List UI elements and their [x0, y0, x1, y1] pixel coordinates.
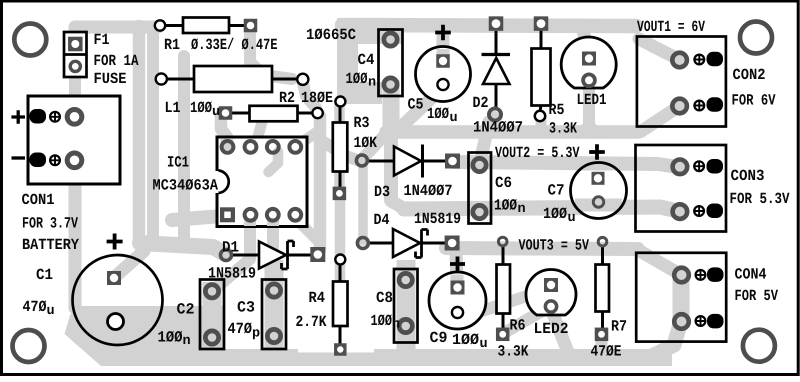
- label C7 value: [544, 208, 551, 218]
- connector CON3: [636, 145, 727, 232]
- wire CON4 pad2 exit to ground bus: [652, 321, 681, 356]
- resistor R1: [155, 18, 257, 34]
- wire LED1 cathode down to upper band: [583, 84, 595, 128]
- label CON2: [733, 69, 740, 80]
- label C2 value: [158, 331, 165, 341]
- CON1 minus sign: [12, 156, 26, 159]
- capacitor C9 100u electrolytic: [429, 257, 486, 330]
- wire R5 bottom pad stub: [536, 120, 547, 131]
- label R3: [354, 117, 361, 127]
- mounting hole bottom-right: [743, 330, 775, 362]
- label R5 value: [550, 122, 556, 133]
- wire LED2 anode to C9 minus: [470, 290, 545, 315]
- wire vertical B battery net: [147, 31, 159, 241]
- label C1 unit u: [47, 307, 53, 314]
- label L1 value: [191, 102, 197, 112]
- wire C4 blob vertical to R3 top: [337, 18, 358, 100]
- wire strip through C3: [265, 260, 284, 354]
- label D1 value: [209, 267, 216, 277]
- label R5: [549, 104, 556, 114]
- label L1: [166, 102, 172, 112]
- IC1 notch: [217, 171, 229, 194]
- wire lower band jog: [391, 201, 405, 209]
- LED2: [526, 269, 576, 315]
- resistor R4 2.7K: [333, 255, 348, 356]
- label C3 value: [228, 323, 235, 333]
- diode D1 1N5819: [221, 241, 326, 269]
- wire vertical C (L1 net): [178, 56, 190, 238]
- resistor R2: [219, 106, 323, 122]
- label CON4 usage: [735, 290, 741, 300]
- label IC marking 10665C: [307, 29, 314, 39]
- label R7 value: [591, 345, 598, 355]
- label IC1: [168, 156, 173, 166]
- C7 plus sign: [589, 144, 605, 160]
- wire junction down behind D3 to lower band: [384, 131, 398, 200]
- wire LED1 drop fillet left: [578, 126, 588, 134]
- label VOUT3 net: [519, 239, 526, 249]
- wire CON4 pad1 to pad2 strip: [673, 276, 690, 321]
- wire CON2 pad2 exit diagonal: [640, 107, 678, 132]
- connector CON2: [637, 37, 726, 127]
- connector CON1 battery: [11, 96, 120, 184]
- label CON3: [731, 170, 739, 181]
- wire horizontal into IC pin1: [172, 216, 222, 220]
- capacitor C3 470p: [262, 280, 286, 350]
- label C5 value: [428, 108, 434, 118]
- wire CON1 negative down to ground blob: [69, 166, 82, 308]
- mounting hole top-left: [14, 24, 46, 56]
- wire branch R2 right to D3 anode: [322, 141, 360, 161]
- wire top Vin band: [342, 25, 636, 26]
- label CON3 usage: [731, 193, 737, 203]
- wire VOUT3 into CON4 pad1: [638, 250, 678, 273]
- diode D3 1N4007: [356, 145, 460, 178]
- wire D3 anode down to D4 anode: [358, 166, 368, 241]
- resistor R5 3.3K: [532, 16, 551, 121]
- wire C4 bottom pad down to junction: [383, 80, 400, 129]
- label C6 value: [495, 199, 501, 209]
- label R6 value: [498, 345, 505, 356]
- wire lower band (C6 bottom / C7 minus to CON3 pad2): [404, 207, 678, 211]
- label F1: [95, 34, 101, 44]
- label R1 value: [191, 38, 198, 49]
- wire C5 minus diagonal to junction: [400, 90, 440, 128]
- wire LED2 cathode to ground bus: [551, 309, 568, 352]
- label L1 unit u: [213, 108, 219, 115]
- connector CON4: [636, 253, 726, 342]
- resistor R6 3.3K: [496, 237, 510, 341]
- wire strip through C8: [397, 260, 416, 354]
- wire R2 right pad down to D1 cathode pad: [314, 116, 327, 250]
- label F1 fuse: [95, 73, 101, 83]
- label C4: [358, 54, 366, 65]
- label C3 unit p: [253, 329, 260, 339]
- CON1 plus sign: [11, 110, 25, 124]
- label C4 value: [346, 73, 352, 83]
- wire R2 body to IC pin: [256, 122, 262, 144]
- LED1: [561, 37, 616, 88]
- wire LED1 drop fillet right: [590, 126, 600, 134]
- label CON1 battery: [23, 239, 30, 249]
- C1 plus sign: [107, 234, 123, 250]
- mounting hole top-right: [740, 22, 772, 54]
- C9 plus sign: [450, 257, 465, 272]
- resistor R3 10K: [333, 97, 348, 201]
- wire IC pin down through C3: [267, 226, 279, 290]
- label C4 unit n: [369, 78, 375, 85]
- diode D2 1N4007: [482, 16, 511, 120]
- label C2: [177, 303, 185, 314]
- wire R1 right pad down to L1 right pad: [250, 30, 292, 79]
- wire blob lower fill: [342, 82, 382, 104]
- label C6 unit n: [518, 205, 524, 212]
- label IC1 part MC34063A: [153, 179, 160, 189]
- label R4: [309, 292, 316, 302]
- wire band to D1 anode: [140, 243, 225, 254]
- label C5 unit u: [450, 114, 456, 121]
- label C3: [238, 301, 246, 312]
- label R2: [280, 92, 287, 102]
- wire junction to D3 anode diagonal: [362, 129, 390, 159]
- label D4 value: [415, 213, 421, 223]
- wire branch to C1 positive pad: [117, 251, 144, 275]
- wire strip through C2: [203, 282, 222, 354]
- IC1 pins 2-8 round pads: [222, 141, 302, 221]
- capacitor C6 100n: [469, 153, 492, 224]
- label R7: [612, 320, 619, 330]
- label D2 value: [474, 121, 481, 131]
- label D1: [223, 241, 230, 251]
- diode D4 1N5819: [357, 229, 459, 258]
- label R6: [510, 319, 517, 329]
- label C1 value: [23, 301, 30, 311]
- label C6: [496, 177, 504, 188]
- label CON2 usage: [732, 94, 738, 104]
- label D3 value: [404, 185, 411, 195]
- wire vertical A battery net: [133, 26, 146, 241]
- label C8 value: [371, 315, 377, 325]
- wire R3 chain vertical top: [334, 102, 345, 190]
- label C9 unit u: [480, 340, 486, 347]
- wire C4 blob upper: [339, 18, 402, 44]
- label C8: [377, 292, 385, 303]
- wire L1 right pad to R2 right pad: [303, 83, 316, 108]
- label C7: [548, 184, 556, 195]
- wire R4 vertical behind body: [335, 262, 346, 320]
- wire D2 bottom pad stub: [492, 117, 494, 129]
- label R4 value: [296, 316, 302, 326]
- label R1: [165, 39, 172, 49]
- wire R6 bottom to LED2 cathode: [504, 307, 549, 333]
- wire LED1 anode to Vin band: [583, 31, 589, 55]
- inductor L1: [156, 66, 309, 92]
- capacitor C8 100n: [394, 269, 418, 343]
- label D2: [473, 97, 480, 107]
- wire D4 cathode down to C9 plus: [456, 247, 457, 285]
- label CON1: [22, 194, 29, 205]
- fuse F1: [64, 32, 87, 77]
- capacitor C5 100u electrolytic: [416, 25, 471, 102]
- label D3: [375, 186, 382, 196]
- wire IC pin4 to switch node: [296, 219, 318, 241]
- capacitor C2 100n: [200, 280, 224, 350]
- label VOUT1 net: [637, 21, 644, 31]
- resistor R7 470E: [595, 237, 609, 341]
- label LED1: [578, 94, 584, 104]
- capacitor C4 100n: [379, 30, 403, 97]
- label C1: [37, 269, 45, 280]
- op-amp U1 IC1 MC34063A body: [217, 137, 307, 227]
- wire VOUT3 band (D4 cathode to CON4): [446, 248, 638, 249]
- wire IC pin down to C2 top pad: [216, 226, 250, 288]
- label C8 unit n: [393, 320, 399, 327]
- label C5: [408, 98, 415, 109]
- wire R7 bottom stub to bus: [596, 336, 608, 352]
- clearance notch near R4 bottom pad: [298, 331, 374, 353]
- label D4: [374, 214, 381, 224]
- wire through C4 top pad: [381, 20, 401, 44]
- capacitor C7 100u electrolytic: [571, 144, 627, 218]
- wire IC pin5 to switch node: [298, 130, 320, 145]
- label C2 unit n: [183, 337, 189, 344]
- ground bus polygon with C1 blob: [65, 306, 673, 366]
- wire CON2 corner to pad1: [639, 39, 678, 59]
- label R3 value: [354, 137, 360, 147]
- wire R3 bottom to R4 top: [335, 196, 346, 260]
- IC1 pin 1 square pad: [220, 207, 235, 222]
- wire F1 bottom pad to CON1 positive: [74, 66, 75, 114]
- wire F1 top pad to R1 area (battery+ via fuse): [75, 27, 158, 47]
- label F1 current: [95, 55, 101, 65]
- wire C5 plus pad up to Vin band: [437, 28, 450, 52]
- capacitor C1 470u electrolytic: [73, 234, 163, 346]
- wire VOUT2 band (D3 cathode to CON3 pad1): [453, 162, 678, 167]
- C5 plus sign: [435, 25, 451, 41]
- wire R2 left pad down into IC: [221, 115, 227, 146]
- label VOUT2 net: [495, 147, 502, 157]
- wire upper band (D2 cathode to CON2 pad2): [386, 125, 638, 139]
- label C7 unit u: [568, 214, 574, 221]
- label CON1 usage: [23, 217, 28, 227]
- wire blob taper to R3 top pad: [341, 96, 347, 101]
- label R2 value: [302, 92, 309, 102]
- label LED2: [535, 323, 541, 333]
- label C9 value: [453, 334, 460, 344]
- wire D2 bottom to C6 top link: [481, 122, 489, 158]
- label C9: [430, 332, 438, 343]
- mounting hole bottom-left: [13, 330, 45, 362]
- clearance inside C4 body: [380, 46, 401, 75]
- label CON4: [735, 268, 742, 279]
